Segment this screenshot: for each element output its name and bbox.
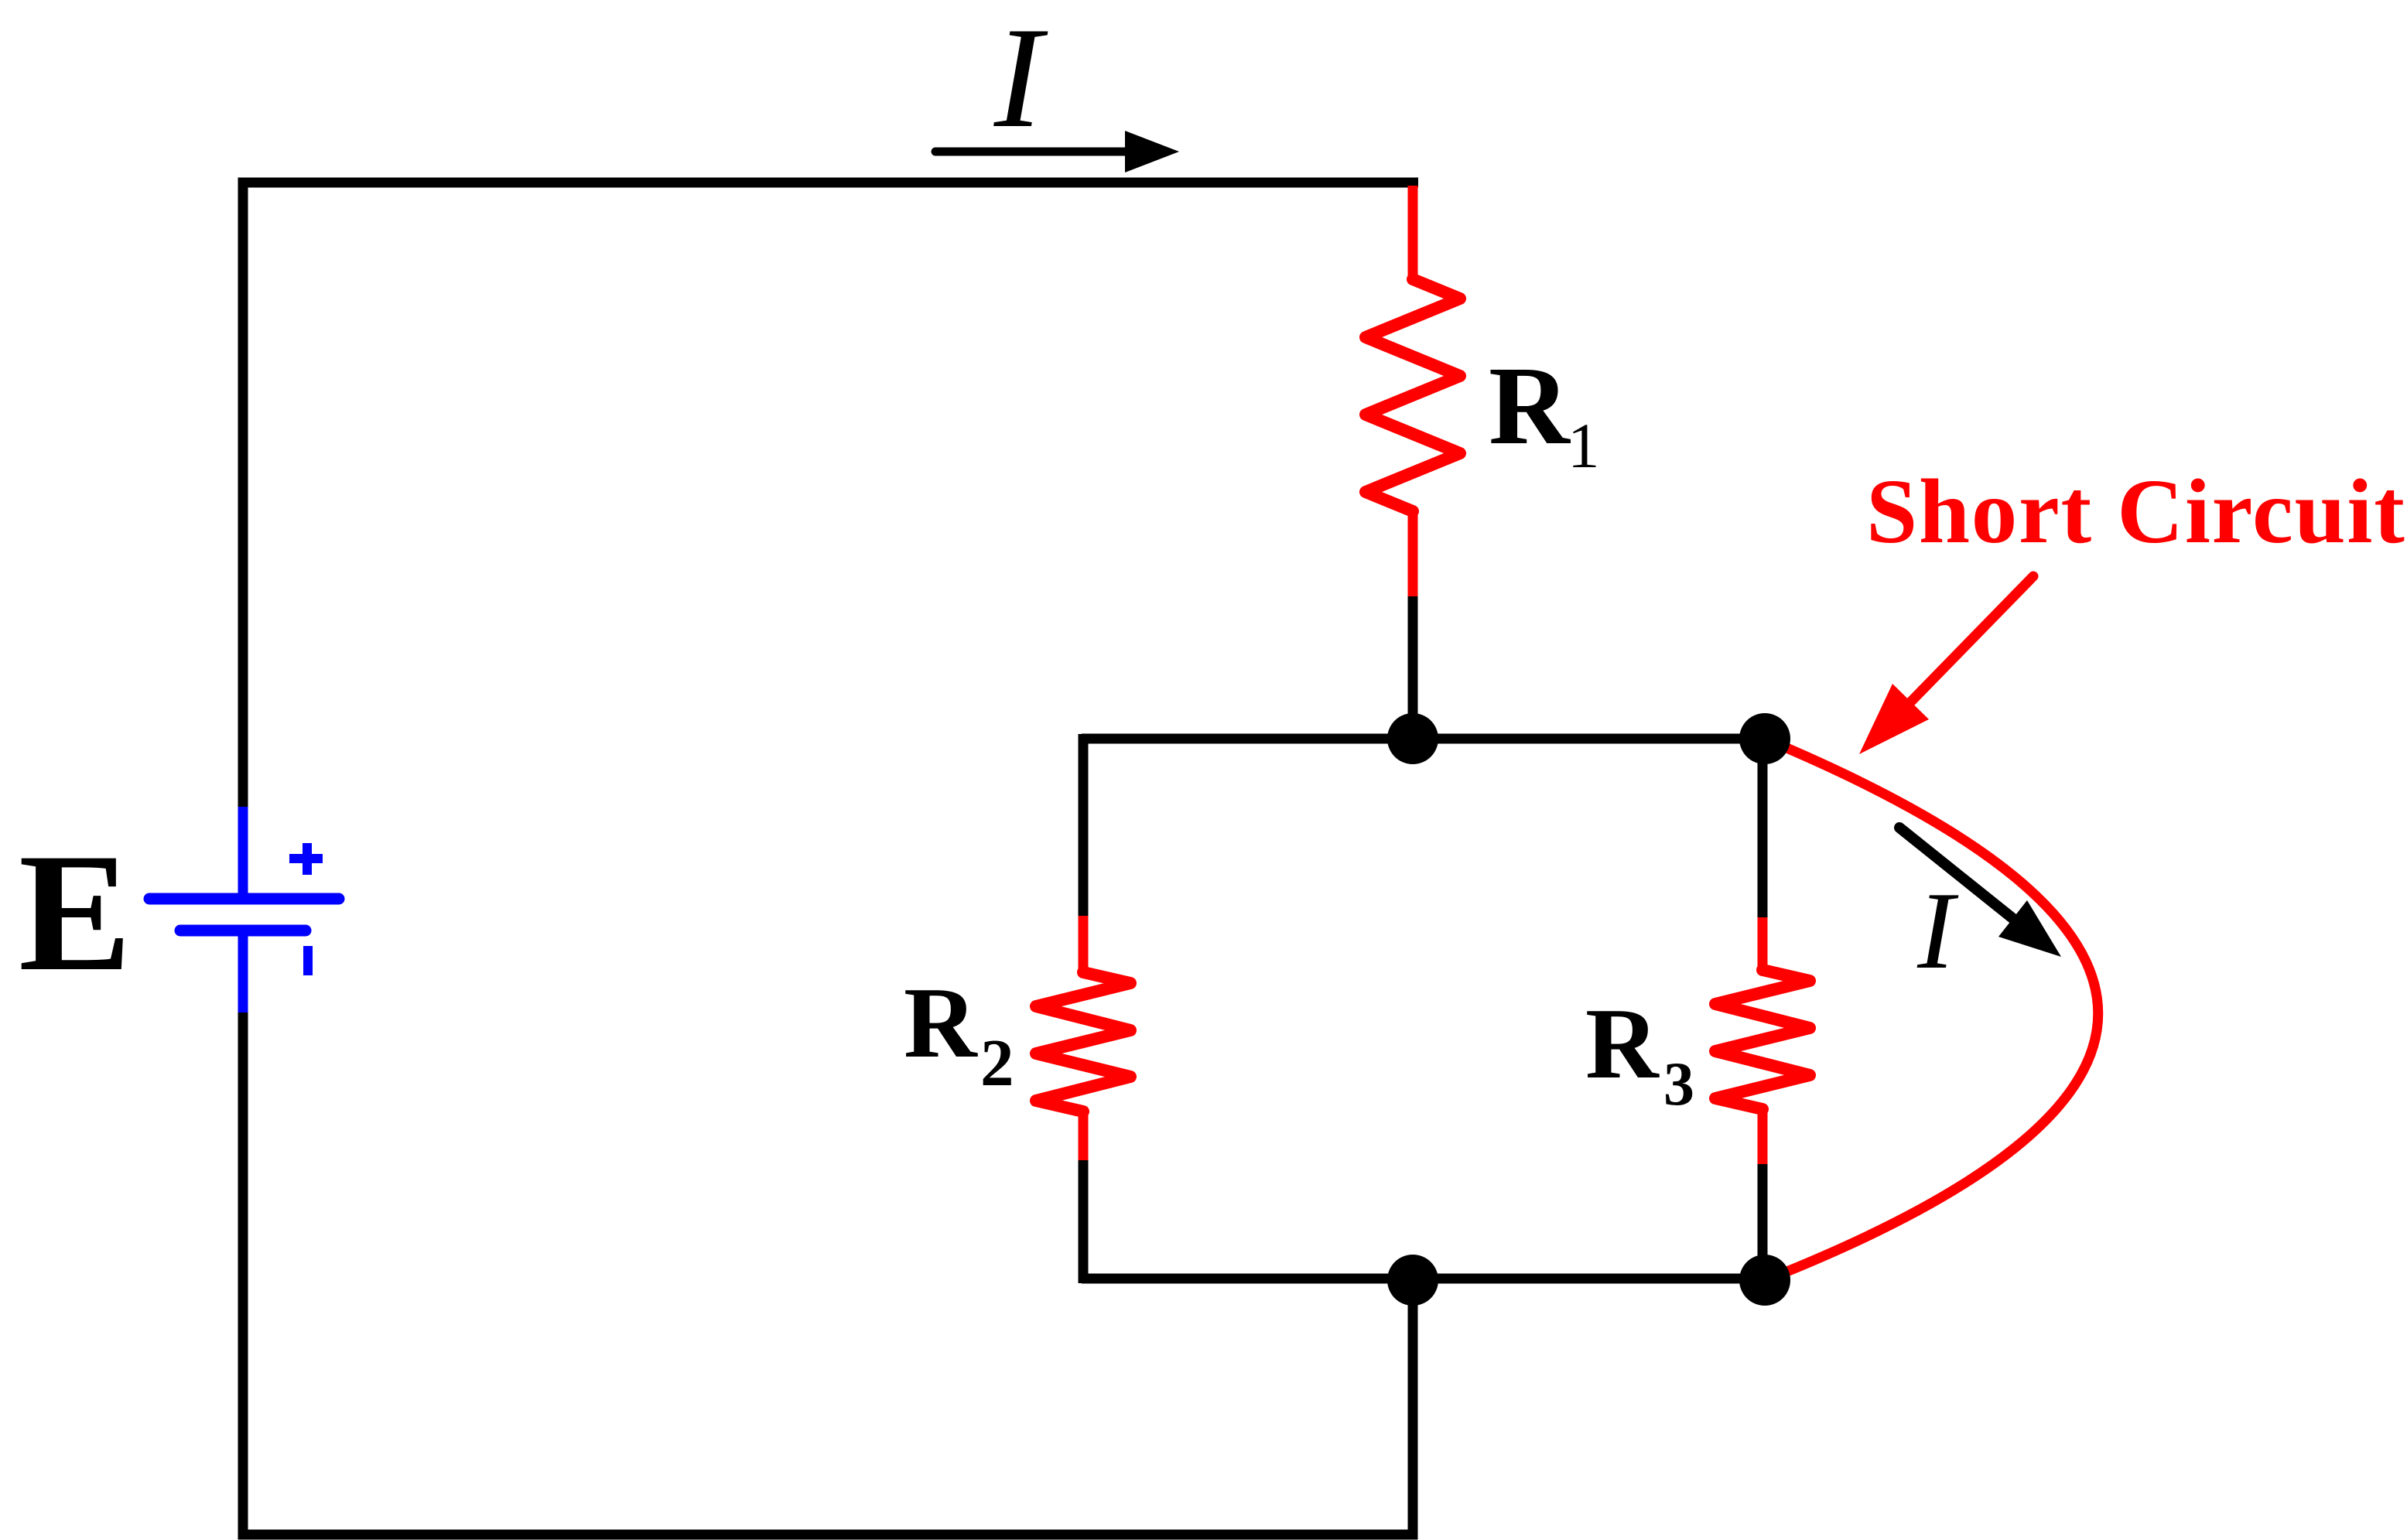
svg-text:2: 2	[980, 1025, 1014, 1100]
svg-text:1: 1	[1568, 410, 1600, 481]
battery E bottom lead (blue)	[238, 933, 248, 1012]
label R2	[904, 967, 1014, 1100]
svg-text:R: R	[1585, 988, 1660, 1100]
wire inner box top (node A row)	[1082, 734, 1765, 744]
wire black below R1 to top node	[1408, 596, 1418, 739]
current arrow I (through short, black)	[1899, 828, 2061, 957]
wire black below R2	[1079, 1160, 1089, 1283]
resistor R2	[1036, 972, 1130, 1111]
wire black above R2	[1079, 734, 1089, 916]
resistor R1	[1366, 279, 1460, 511]
wire inner box bottom (node B row)	[1082, 1274, 1765, 1284]
junction node bottom-right (R3 / short)	[1739, 1255, 1790, 1306]
battery plus mark	[289, 843, 323, 875]
svg-text:E: E	[19, 819, 132, 1006]
wire bottom (bottom-left corner to bottom riser)	[238, 1530, 1418, 1540]
wire red stub above R1	[1408, 186, 1418, 279]
wire black above R3	[1758, 739, 1768, 917]
svg-text:I: I	[993, 0, 1048, 158]
short circuit wire (red arc across R3)	[1765, 739, 2098, 1280]
battery E negative plate (short)	[180, 925, 306, 937]
wire riser (bottom node of parallel box down to bottom wire)	[1408, 1280, 1418, 1535]
wire top (top-left corner to R1 branch)	[238, 178, 1419, 188]
svg-text:3: 3	[1663, 1050, 1694, 1118]
label R3	[1585, 988, 1694, 1118]
svg-text:Short Circuit: Short Circuit	[1866, 460, 2406, 562]
wire left upper (battery + terminal to top-left corner)	[238, 183, 248, 807]
svg-text:R: R	[904, 967, 978, 1079]
wire left lower (battery - terminal to bottom-left corner)	[238, 1012, 248, 1535]
label R1	[1489, 344, 1600, 481]
wire red stub above R3	[1758, 917, 1768, 970]
wire red stub below R3	[1758, 1109, 1768, 1164]
junction node bottom-center (box / riser)	[1387, 1255, 1438, 1306]
current arrow I (top wire)	[935, 131, 1179, 172]
svg-text:R: R	[1489, 344, 1571, 468]
battery E positive plate (long)	[149, 893, 339, 905]
wire red stub above R2	[1079, 916, 1089, 972]
annotation arrow (red) pointing at the short	[1859, 576, 2033, 754]
battery E top lead (blue)	[238, 807, 248, 897]
svg-text:I: I	[1916, 869, 1959, 992]
wire red stub below R1	[1408, 511, 1418, 596]
junction node top-center (R1 / box)	[1387, 713, 1438, 764]
battery minus mark	[303, 946, 313, 975]
resistor R3	[1715, 970, 1810, 1109]
wire black below R3	[1758, 1164, 1768, 1280]
junction node top-right (R3 / short)	[1739, 713, 1790, 764]
wire red stub below R2	[1079, 1111, 1089, 1160]
